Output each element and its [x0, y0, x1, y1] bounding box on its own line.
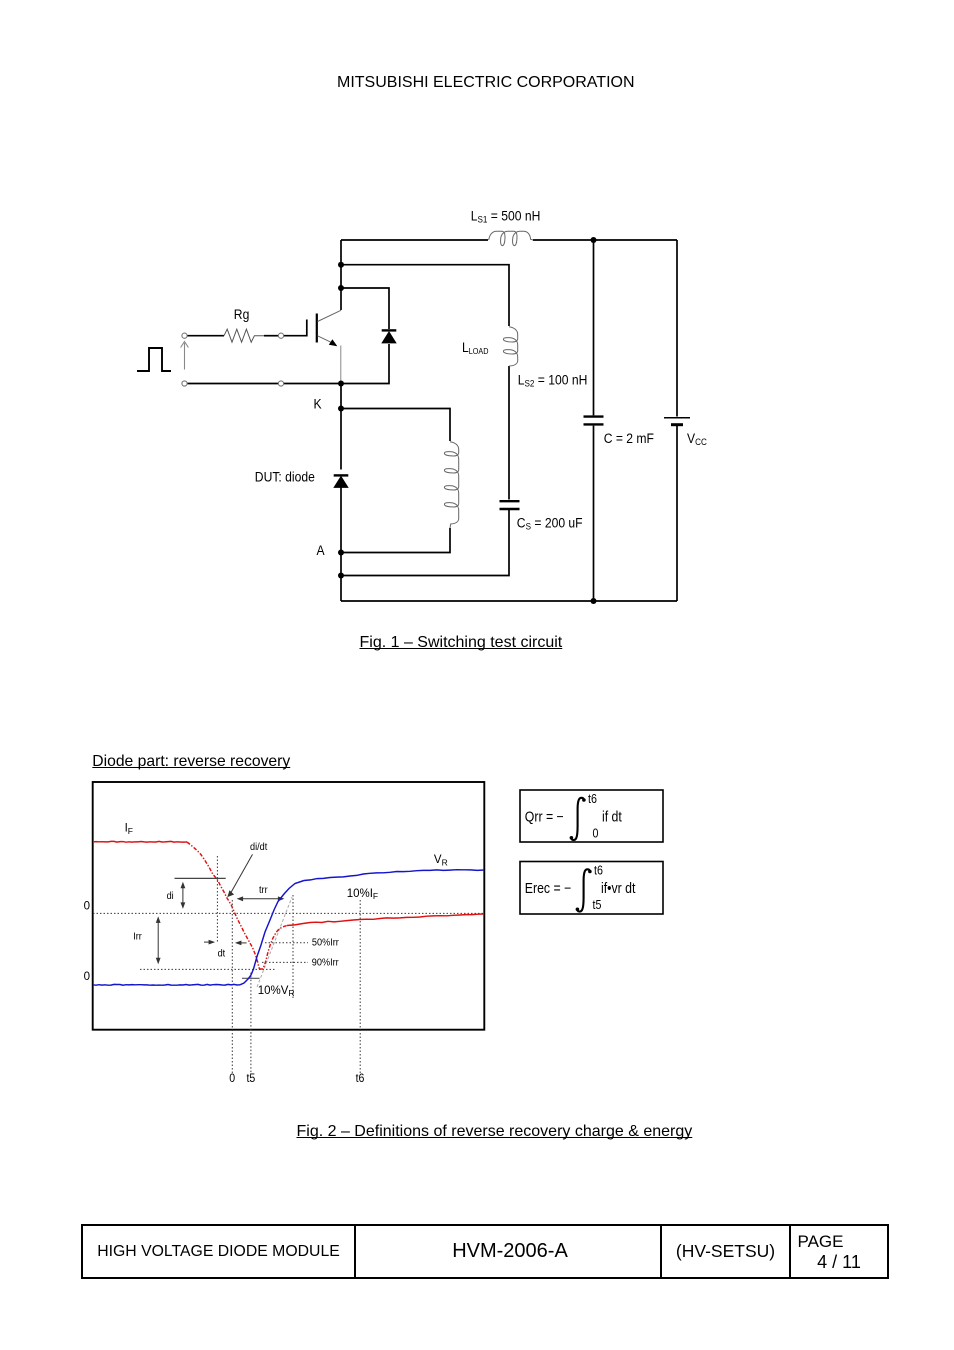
wire top rail right segment: [533, 239, 677, 241]
vertical dotted line t5: [250, 973, 252, 1073]
dt arrow right: [204, 941, 213, 943]
wire Cs bottom to A-node rail: [341, 510, 509, 576]
svg-text:t6: t6: [588, 792, 597, 806]
node A: [338, 550, 344, 556]
svg-text:90%Irr: 90%Irr: [312, 957, 340, 969]
zero current dotted line: [93, 912, 484, 914]
svg-text:di: di: [167, 890, 174, 902]
graph frame: [93, 782, 485, 1030]
svg-text:IF: IF: [125, 823, 133, 836]
svg-text:t6: t6: [356, 1072, 365, 1085]
curve IF red descent dashed: [187, 842, 260, 969]
trr measure arrow: [239, 898, 282, 900]
equation box Qrr: [520, 790, 663, 842]
caption figure 1: [360, 635, 563, 651]
curve VR blue rise: [240, 881, 304, 985]
svg-text:dt: dt: [218, 948, 226, 960]
caption figure 2: [297, 1124, 693, 1140]
pulse source symbol: [137, 348, 171, 371]
curve VR blue tail: [304, 870, 484, 881]
wire top rail left segment: [341, 239, 488, 241]
svg-text:t5: t5: [247, 1072, 256, 1085]
svg-text:K: K: [314, 396, 322, 412]
inductor load coil (large): [444, 442, 458, 528]
svg-text:Rg: Rg: [234, 306, 250, 322]
wire K node vertical: [340, 384, 342, 470]
junction top rail at C: [591, 237, 597, 243]
wire emitter rail bottom right: [284, 383, 341, 385]
vertical dotted line t0: [231, 900, 233, 1073]
gate bar: [306, 320, 308, 337]
svg-text:LLOAD: LLOAD: [462, 339, 489, 356]
curve IF red flat: [93, 840, 187, 843]
dt arrow left: [237, 942, 246, 944]
Irr peak dotted line: [140, 968, 275, 970]
junction diode branch: [338, 285, 344, 291]
svg-text:Qrr = −: Qrr = −: [525, 809, 564, 825]
wire Vcc vertical top: [676, 240, 678, 417]
emitter vertical thin wire: [340, 346, 342, 384]
wire DUT diode to A node and bottom rail: [340, 488, 342, 602]
svg-text:LS1 = 500 nH: LS1 = 500 nH: [471, 207, 541, 224]
wire K branch to load coil: [341, 409, 450, 442]
Irr measure arrow: [157, 919, 159, 962]
svg-text:t5: t5: [593, 898, 602, 912]
header title: [337, 75, 635, 91]
pulse arrow: [181, 342, 189, 370]
50%Irr leader: [265, 942, 308, 944]
circuit SVG: [0, 0, 954, 730]
svg-text:DUT: diode: DUT: diode: [255, 469, 315, 485]
wire load coil bottom to A node: [341, 528, 450, 553]
90%Irr leader: [262, 961, 308, 963]
terminal circle gate mid: [278, 333, 283, 338]
svg-text:trr: trr: [259, 885, 268, 897]
svg-text:A: A: [317, 542, 325, 558]
curve red recovery rise dashed: [260, 926, 288, 970]
wire freewheel diode branch bottom: [341, 344, 389, 384]
integral sign Erec: [577, 869, 590, 911]
section heading: [92, 754, 290, 770]
freewheel diode D1: [382, 330, 397, 343]
wire gate circle to IGBT gate: [284, 335, 307, 337]
svg-text:if dt: if dt: [602, 809, 622, 825]
footer table: [81, 1224, 889, 1279]
svg-text:VR: VR: [434, 854, 448, 867]
svg-text:Erec = −: Erec = −: [525, 880, 572, 896]
wire LLOAD to Cs top: [508, 366, 510, 500]
terminal circle emitter mid: [278, 381, 283, 386]
recovery extrapolation dashed diagonal: [257, 897, 292, 987]
wire freewheel diode branch top: [341, 288, 389, 329]
svg-text:t6: t6: [594, 864, 603, 878]
junction emitter rail: [338, 381, 344, 387]
svg-text:0: 0: [229, 1072, 235, 1085]
svg-text:Irr: Irr: [133, 931, 142, 943]
junction second rail: [338, 262, 344, 268]
vertical dotted line trr end: [292, 895, 294, 998]
graph SVG: [0, 740, 954, 1100]
inductor LS1: [489, 231, 533, 245]
collector lead: [318, 310, 342, 321]
wire capacitor C vertical top: [593, 240, 595, 415]
emitter arrowhead: [329, 339, 338, 346]
di level solid line: [175, 877, 226, 879]
capacitor Cs: [500, 501, 520, 509]
svg-text:10%IF: 10%IF: [347, 888, 378, 901]
svg-text:CS = 200 uF: CS = 200 uF: [517, 514, 583, 531]
10%VR solid line: [242, 977, 260, 979]
svg-text:LS2 = 100 nH: LS2 = 100 nH: [518, 371, 588, 388]
vertical dotted line di window start: [216, 856, 218, 942]
DUT diode: [334, 475, 349, 487]
svg-text:if•vr dt: if•vr dt: [601, 880, 636, 896]
wire Vcc vertical bottom: [676, 426, 678, 601]
wire left vertical from top rail to transistor collector: [340, 240, 342, 310]
curve VR blue flat: [93, 983, 240, 986]
junction A lower rail: [338, 573, 344, 579]
wire gate input top: [187, 335, 224, 337]
node K: [338, 406, 344, 412]
svg-text:0: 0: [84, 971, 90, 983]
resistor Rg: [224, 329, 264, 342]
svg-text:0: 0: [84, 900, 90, 912]
wire capacitor C vertical bottom: [593, 426, 595, 601]
battery Vcc: [664, 418, 690, 425]
wire second rail to LLOAD branch: [341, 265, 509, 326]
svg-text:0: 0: [593, 827, 599, 841]
wire emitter rail bottom left: [187, 383, 278, 385]
svg-text:10%VR: 10%VR: [258, 985, 295, 998]
di/dt pointer arrow: [229, 854, 253, 896]
body bar: [316, 314, 318, 343]
curve red tail: [287, 914, 484, 926]
integral sign Qrr: [571, 798, 584, 840]
equation box Erec: [520, 862, 663, 915]
svg-text:di/dt: di/dt: [250, 842, 268, 854]
transistor Q1 (IGBT): [307, 310, 341, 383]
wire bottom rail: [341, 600, 677, 602]
junction bottom rail at C: [591, 598, 597, 604]
svg-text:C = 2 mF: C = 2 mF: [604, 430, 654, 446]
inductor LLOAD: [503, 327, 517, 366]
wire resistor to gate circle: [264, 335, 278, 337]
svg-text:VCC: VCC: [687, 430, 707, 447]
capacitor C: [584, 417, 604, 425]
emitter lead: [318, 336, 334, 344]
terminal circle emitter input: [182, 381, 187, 386]
svg-text:50%Irr: 50%Irr: [312, 937, 340, 949]
vertical dotted line t6: [359, 900, 361, 1073]
terminal circle gate input: [182, 333, 187, 338]
di measure arrow: [182, 884, 184, 907]
